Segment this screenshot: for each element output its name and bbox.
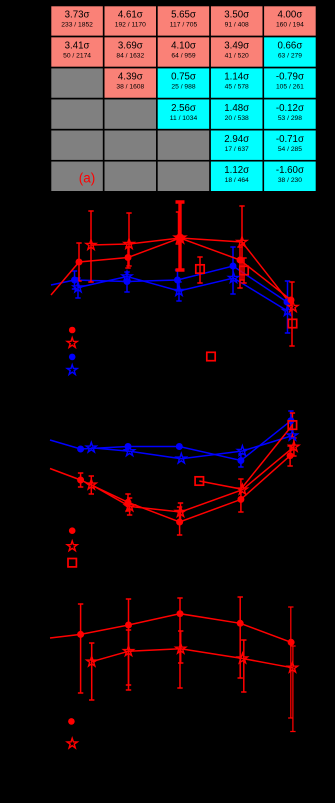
table cell r4c2 (104, 99, 157, 130)
error bar red star g4 plot3 (241, 640, 246, 692)
red square marker stray plot1 (207, 352, 215, 360)
table cell r6c2 (104, 161, 157, 192)
error bar red circle g1 plot2 (78, 473, 83, 487)
table cell r2c5 (263, 37, 316, 68)
svg-text:-0.79σ: -0.79σ (276, 72, 304, 83)
svg-text:18 / 464: 18 / 464 (225, 177, 249, 184)
error bar red star g2 plot3 (126, 630, 131, 690)
legend red circle plot1 (69, 327, 76, 334)
error bar red g5 plot1 (289, 282, 294, 346)
table cell r5c2 (104, 130, 157, 161)
table cell r3c2 (104, 68, 157, 99)
error bar red star g3 plot3 (178, 631, 183, 663)
table cell r1c2 (104, 6, 157, 37)
error bar blue circle g4 plot1 (230, 247, 235, 294)
error bar red star g1 plot3 (89, 643, 94, 700)
blue circle marker g1 plot1 (71, 277, 78, 284)
wire blue star line plot1 (78, 277, 288, 312)
svg-text:3.73σ: 3.73σ (65, 10, 90, 21)
error bar red star g4 plot1 (239, 206, 244, 280)
error bar red star g1 plot1 (88, 211, 93, 282)
wire red circle line plot2 (50, 456, 290, 522)
table cell r2c1 (51, 37, 104, 68)
blue circle marker g4 plot2 (237, 457, 244, 464)
svg-text:53 / 298: 53 / 298 (278, 115, 302, 122)
error bar blue circle g3 plot1 (175, 270, 180, 290)
table cell r6c3 (157, 161, 210, 192)
error bar thick red g3 plot1 (176, 202, 185, 270)
svg-text:64 / 959: 64 / 959 (171, 53, 195, 60)
blue star marker g1 plot2 (86, 442, 96, 452)
svg-text:(a): (a) (79, 171, 96, 186)
red star marker g5 plot1 (288, 302, 298, 312)
red circle marker g3 plot3 (177, 610, 184, 617)
error bar red circle g2 plot3 (126, 599, 131, 685)
svg-text:20 / 538: 20 / 538 (225, 115, 249, 122)
blue star marker g3 plot2 (176, 453, 186, 463)
svg-text:41 / 520: 41 / 520 (225, 53, 249, 60)
red circle marker g1 plot2 (77, 477, 84, 484)
error bar red star g5 plot2 (291, 438, 296, 456)
red star marker g4 plot1 (237, 237, 247, 247)
red circle marker g2 plot2 (125, 499, 132, 506)
svg-text:84 / 1632: 84 / 1632 (116, 53, 144, 60)
error bar red circle g2 plot2 (125, 494, 130, 511)
blue star marker g2 plot2 (125, 446, 135, 456)
svg-text:4.61σ: 4.61σ (118, 10, 143, 21)
table cell r6c4 (210, 161, 263, 192)
wire red star line plot2 (91, 447, 294, 512)
svg-text:45 / 578: 45 / 578 (225, 84, 249, 91)
error bar red circle g4 plot2 (238, 479, 243, 512)
blue star marker g4 plot2 (237, 446, 247, 456)
svg-text:91 / 408: 91 / 408 (225, 22, 249, 29)
wire red square line plot2 (199, 425, 292, 489)
blue circle marker g3 plot2 (176, 443, 183, 450)
legend red circle plot3 (68, 718, 75, 725)
svg-text:-0.12σ: -0.12σ (276, 103, 304, 114)
legend blue star plot1 (67, 365, 77, 375)
blue star marker g2 plot1 (122, 271, 132, 281)
table cell r1c4 (210, 6, 263, 37)
blue circle marker g2 plot2 (125, 443, 132, 450)
wire red circle line plot1 (51, 238, 291, 300)
svg-text:5.65σ: 5.65σ (171, 10, 196, 21)
red circle marker g5 plot3 (288, 639, 295, 646)
error bar blue circle g1 plot1 (72, 271, 77, 289)
svg-text:4.39σ: 4.39σ (118, 72, 143, 83)
table cell r4c3 (157, 99, 210, 130)
red star marker g1 plot2 (86, 479, 96, 489)
red star marker g5 plot2 (289, 442, 299, 452)
blue star marker g3 plot1 (174, 286, 184, 296)
table cell r6c5 (263, 161, 316, 192)
legend blue circle plot1 (69, 354, 76, 361)
red square marker g5 plot2 (288, 421, 296, 429)
svg-text:54 / 285: 54 / 285 (278, 146, 302, 153)
svg-text:1.48σ: 1.48σ (224, 103, 249, 114)
red square marker g5 plot1 (288, 319, 296, 327)
red circle marker g1 plot1 (76, 259, 83, 266)
svg-text:63 / 279: 63 / 279 (278, 53, 302, 60)
svg-text:3.50σ: 3.50σ (224, 10, 249, 21)
error bar red circle g3 plot2 (177, 507, 182, 535)
table cell r4c4 (210, 99, 263, 130)
red star marker g3 plot3 (176, 644, 186, 654)
red circle marker g3 plot2 (176, 519, 183, 526)
red star marker g1 plot1 (86, 240, 96, 250)
wire blue star line plot2 (91, 436, 292, 459)
svg-text:0.75σ: 0.75σ (171, 72, 196, 83)
red star marker g2 plot2 (125, 501, 135, 511)
svg-text:4.10σ: 4.10σ (171, 41, 196, 52)
svg-text:0.66σ: 0.66σ (277, 41, 302, 52)
error bar blue star g1 plot1 (75, 278, 80, 298)
svg-text:117 / 705: 117 / 705 (170, 22, 198, 29)
svg-text:3.69σ: 3.69σ (118, 41, 143, 52)
error bar blue circle g2 plot1 (124, 272, 129, 292)
error bar red circle g3 plot3 (177, 598, 182, 688)
table cell r3c3 (157, 68, 210, 99)
error bar blue circle g5 plot2 (288, 411, 293, 430)
wire red star line plot1 (91, 238, 293, 307)
svg-text:50 / 2174: 50 / 2174 (63, 53, 91, 60)
wire red star line plot3 (92, 649, 293, 668)
error bar red circle g2 plot1 (125, 247, 130, 268)
svg-text:233 / 1852: 233 / 1852 (61, 22, 93, 29)
legend red star plot2 (67, 541, 77, 551)
error bar red star g5 plot3 (290, 646, 295, 732)
svg-text:2.56σ: 2.56σ (171, 103, 196, 114)
error bar red circle g1 plot1 (76, 243, 81, 281)
svg-text:3.41σ: 3.41σ (65, 41, 90, 52)
table cell r5c5 (263, 130, 316, 161)
plot 2 (50, 411, 299, 567)
legend red star plot1 (67, 338, 77, 348)
error bar red star g2 plot2 (127, 498, 132, 515)
svg-text:4.00σ: 4.00σ (277, 10, 302, 21)
red star marker g2 plot1 (124, 239, 134, 249)
red star marker g3 plot1 (174, 232, 185, 243)
red star marker g3 plot2 (176, 507, 186, 517)
svg-text:-1.60σ: -1.60σ (276, 165, 304, 176)
red star marker g5 plot3 (288, 663, 298, 673)
error bar blue g5 plot1 (285, 281, 290, 333)
legend red circle plot2 (69, 527, 76, 534)
red circle marker g4 plot3 (237, 620, 244, 627)
blue circle marker g4 plot1 (230, 263, 237, 270)
blue star marker g5 plot1 (283, 306, 293, 316)
blue star marker g1 plot1 (73, 282, 83, 292)
error bar red circle g1 plot3 (78, 604, 83, 693)
svg-text:3.49σ: 3.49σ (224, 41, 249, 52)
svg-text:25 / 988: 25 / 988 (171, 84, 195, 91)
error bar red circle g4 plot1 (237, 247, 242, 288)
svg-text:2.94σ: 2.94σ (224, 134, 249, 145)
red square marker g3 plot2 (195, 477, 203, 485)
table cell r5c3 (157, 130, 210, 161)
blue circle marker g5 plot1 (284, 299, 291, 306)
error bar blue circle g4 plot2 (238, 454, 243, 467)
blue circle marker g1 plot2 (77, 446, 84, 453)
svg-text:1.14σ: 1.14σ (224, 72, 249, 83)
red circle marker g3 plot1 (176, 234, 185, 243)
significance table (51, 6, 317, 192)
table cell r1c1 (51, 6, 104, 37)
table cell r3c4 (210, 68, 263, 99)
svg-text:17 / 637: 17 / 637 (225, 146, 249, 153)
table cell r3c1 (51, 68, 104, 99)
error bar red star g3 plot1 (176, 212, 181, 244)
blue star marker g4 plot1 (229, 273, 239, 283)
svg-text:38 / 1608: 38 / 1608 (116, 84, 144, 91)
table cell r6c1 (51, 161, 104, 192)
table cell r3c5 (263, 68, 316, 99)
error bar red star g2 plot1 (126, 213, 131, 266)
table cell r2c2 (104, 37, 157, 68)
svg-text:192 / 1170: 192 / 1170 (115, 22, 146, 29)
error bar red star g1 plot2 (89, 476, 94, 494)
wire red circle line plot3 (50, 614, 291, 643)
red star marker g2 plot3 (124, 646, 134, 656)
plot 3 (50, 597, 298, 748)
table cell r2c3 (157, 37, 210, 68)
wire blue circle line plot1 (51, 266, 287, 302)
blue star marker g5 plot2 (287, 430, 297, 440)
svg-text:105 / 261: 105 / 261 (276, 84, 304, 91)
red circle marker g4 plot1 (237, 257, 244, 264)
red star marker g1 plot3 (87, 656, 97, 666)
error bar blue star g3 plot1 (176, 282, 181, 301)
svg-text:160 / 194: 160 / 194 (276, 22, 304, 29)
red star marker g4 plot3 (238, 653, 248, 663)
error bar red star g3 plot2 (178, 503, 183, 521)
wire blue circle line plot2 (50, 421, 291, 461)
table cell r1c3 (157, 6, 210, 37)
red circle marker g4 plot2 (237, 496, 244, 503)
plot 1 (51, 202, 298, 374)
error bar red square g5 plot2 (290, 413, 295, 437)
red circle marker g2 plot3 (125, 622, 132, 629)
red circle marker g1 plot3 (77, 631, 84, 638)
error bar red square g4 plot1 (241, 258, 246, 283)
blue circle marker g2 plot1 (124, 278, 131, 285)
table cell r2c4 (210, 37, 263, 68)
svg-text:1.12σ: 1.12σ (224, 165, 249, 176)
error bar red circle g4 plot3 (238, 597, 243, 678)
error bar red square g3 plot1 (197, 257, 202, 283)
error bar red circle g5 plot2 (287, 446, 292, 466)
blue circle marker g3 plot1 (174, 277, 181, 284)
red square marker g4 plot1 (240, 266, 248, 274)
table cell r4c5 (263, 99, 316, 130)
table cell r1c5 (263, 6, 316, 37)
legend red star plot3 (67, 738, 77, 748)
table cell r5c1 (51, 130, 104, 161)
red star marker g4 plot2 (237, 484, 247, 494)
svg-text:38 / 230: 38 / 230 (278, 177, 302, 184)
red circle marker g5 plot2 (287, 452, 294, 459)
table cell r5c4 (210, 130, 263, 161)
legend red square plot2 (68, 559, 76, 567)
table cell r4c1 (51, 99, 104, 130)
red circle marker g5 plot1 (288, 297, 295, 304)
error bar red circle g5 plot3 (288, 607, 293, 718)
red square marker g3 plot1 (196, 265, 204, 273)
svg-text:-0.71σ: -0.71σ (276, 134, 304, 145)
red circle marker g2 plot1 (125, 254, 132, 261)
svg-text:11 / 1034: 11 / 1034 (170, 115, 198, 122)
blue circle marker g5 plot2 (287, 417, 294, 424)
